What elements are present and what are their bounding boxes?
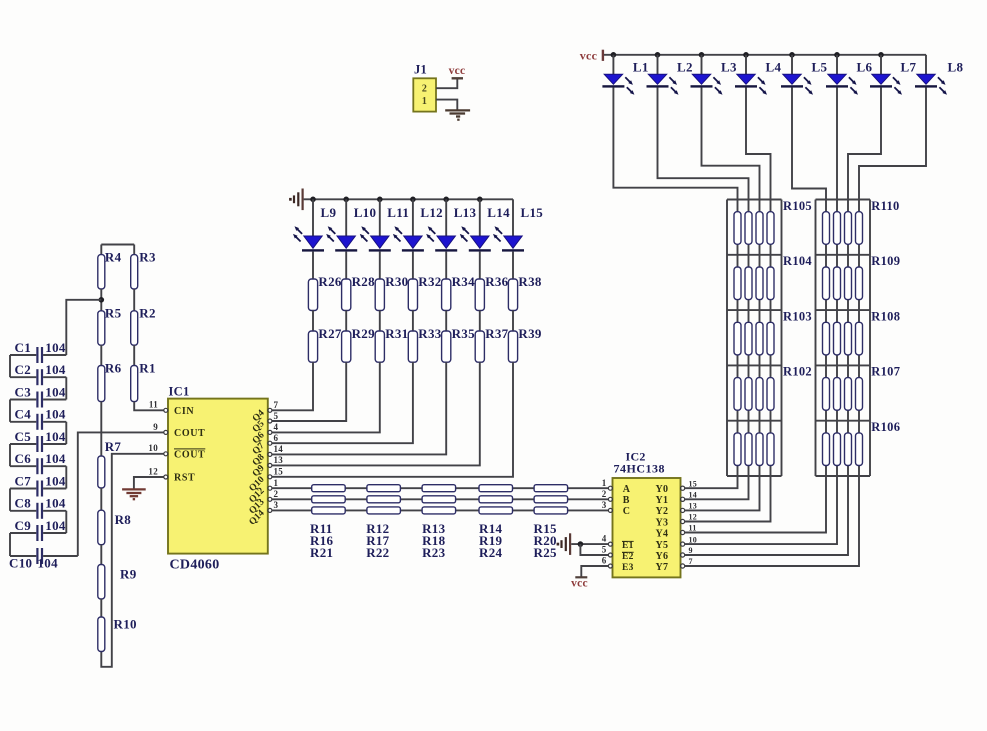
wire network right bus	[781, 200, 783, 477]
svg-text:R22: R22	[366, 545, 389, 560]
resistor element (network)	[823, 433, 830, 466]
wire cap bus right C6-C7	[65, 466, 67, 488]
resistor element (network)	[834, 267, 841, 300]
pin 6 (Q7)	[268, 441, 272, 445]
pin 9 (Y6)	[681, 553, 685, 557]
svg-text:14: 14	[689, 491, 698, 500]
pin 5 (Q5)	[268, 419, 272, 423]
wire R39 to IC1 pin	[272, 362, 513, 477]
resistor R6	[98, 366, 105, 402]
svg-text:R34: R34	[452, 274, 475, 289]
resistor R33	[408, 331, 417, 362]
wire network column	[836, 200, 838, 477]
resistor R15	[534, 485, 568, 492]
node rail junction L1	[611, 52, 617, 58]
wire anode L15	[512, 199, 514, 236]
wire network rung	[816, 364, 871, 366]
node rail junction L6	[834, 52, 840, 58]
resistor R31	[375, 331, 384, 362]
svg-text:Y1: Y1	[655, 495, 668, 506]
resistor R27	[308, 331, 317, 362]
resistor R22	[367, 507, 401, 514]
svg-text:R37: R37	[485, 326, 508, 341]
wire R4-R3 top	[101, 244, 134, 246]
resistor R28	[342, 279, 351, 311]
pin 4 (E1)	[608, 542, 612, 546]
pin 13 (Q9)	[268, 463, 272, 467]
svg-text:CIN: CIN	[174, 406, 194, 417]
svg-text:R8: R8	[115, 512, 132, 527]
resistor element (network)	[756, 212, 763, 245]
wire to E2	[580, 544, 608, 555]
svg-text:15: 15	[689, 479, 698, 488]
node R4/R5 junction	[99, 297, 105, 303]
svg-text:104: 104	[45, 473, 66, 488]
wire	[133, 289, 135, 311]
svg-text:E2: E2	[622, 552, 634, 562]
svg-text:R7: R7	[105, 439, 122, 454]
pin 3 (Q14)	[268, 508, 272, 512]
wire anode L8	[925, 55, 927, 75]
svg-text:R110: R110	[871, 199, 899, 213]
resistor R20	[534, 496, 568, 503]
pin 12 (RST)	[164, 475, 168, 479]
resistor R25	[534, 507, 568, 514]
svg-text:L1: L1	[633, 60, 649, 75]
svg-text:R33: R33	[418, 326, 441, 341]
wire cap bus right C2-C3	[65, 377, 67, 399]
svg-text:5: 5	[602, 545, 607, 555]
resistor R35	[442, 331, 451, 362]
svg-text:R102: R102	[783, 365, 812, 379]
pin 12 (Y3)	[681, 519, 685, 523]
LED L7	[870, 74, 902, 95]
resistor element (network)	[767, 212, 774, 245]
wire IC1 /COUT loop to R10	[101, 454, 163, 667]
svg-text:104: 104	[45, 429, 66, 444]
svg-text:vcc: vcc	[449, 65, 466, 77]
wire R8 to R9	[100, 545, 102, 565]
resistor R24	[479, 507, 513, 514]
resistor R30	[375, 279, 384, 311]
resistor element (network)	[756, 378, 763, 411]
resistor element (network)	[734, 267, 741, 300]
svg-text:7: 7	[689, 557, 693, 566]
svg-text:E1: E1	[622, 541, 634, 551]
svg-text:1: 1	[422, 96, 427, 107]
svg-text:4: 4	[602, 534, 607, 544]
svg-text:C8: C8	[15, 496, 32, 511]
wire anode L9	[312, 199, 314, 236]
wire L14 cathode	[479, 252, 481, 279]
wire	[100, 289, 102, 311]
wire R35 to IC1 pin	[272, 362, 446, 454]
pin 2 (Q13)	[268, 497, 272, 501]
wire network rung	[727, 420, 782, 422]
wire L7 cathode to R110 net	[848, 87, 881, 199]
node rail junction L2	[655, 52, 661, 58]
ground (L9 rail)	[294, 189, 303, 211]
wire cap bus left C7-C8	[9, 489, 11, 511]
capacitor C7	[10, 481, 66, 497]
pin 1 (Q12)	[268, 486, 272, 490]
wire R1 to IC1 CIN	[134, 402, 163, 411]
svg-text:R31: R31	[385, 326, 408, 341]
wire anode L10	[345, 199, 347, 236]
svg-text:R27: R27	[318, 326, 341, 341]
resistor element (network)	[734, 212, 741, 245]
svg-text:C1: C1	[15, 340, 32, 355]
capacitor C5	[10, 436, 66, 452]
capacitor C8	[10, 503, 66, 519]
wire L2 cathode to R105 net	[658, 87, 749, 199]
wire cap bus left C9-C10	[9, 533, 11, 556]
resistor R10	[98, 617, 105, 652]
capacitor C9	[10, 525, 66, 541]
power VCC bar	[602, 50, 604, 61]
svg-text:2: 2	[602, 489, 607, 499]
LED L9	[293, 226, 324, 251]
svg-text:R25: R25	[534, 545, 557, 560]
resistor element (network)	[834, 433, 841, 466]
wire	[312, 311, 314, 332]
power VCC (J1)	[452, 77, 463, 79]
pin 9 (COUT)	[164, 430, 168, 434]
op-amp substitute: counter IC1 CD4060	[168, 399, 268, 554]
decoder IC2 74HC138	[613, 478, 681, 577]
pin 10 (Y5)	[681, 542, 685, 546]
svg-text:COUT: COUT	[174, 449, 205, 460]
wire network column	[858, 200, 860, 477]
wire R7 to R8	[100, 488, 102, 510]
wire Y1 to R10x net	[685, 476, 749, 499]
resistor R19	[479, 496, 513, 503]
resistor element (network)	[845, 267, 852, 300]
svg-text:104: 104	[45, 518, 66, 533]
wire anode L7	[880, 55, 882, 75]
node E1/E2 junction	[578, 541, 584, 547]
svg-text:L12: L12	[420, 205, 443, 220]
svg-text:vcc: vcc	[580, 49, 598, 63]
svg-text:R105: R105	[783, 199, 812, 213]
LED L3	[691, 74, 723, 95]
resistor element (network)	[823, 212, 830, 245]
wire E3 to VCC	[581, 566, 608, 577]
resistor R9	[98, 565, 105, 600]
svg-text:R32: R32	[418, 274, 441, 289]
wire L8 cathode to R110 net	[859, 87, 926, 199]
node rail junction L12	[410, 197, 416, 203]
wire R33 to IC1 pin	[272, 362, 413, 443]
svg-text:E3: E3	[622, 563, 634, 573]
wire cap bus left C1-C2	[9, 355, 11, 377]
node rail junction L4	[743, 52, 749, 58]
wire	[133, 245, 135, 255]
resistor R4	[98, 255, 105, 289]
resistor R18	[422, 496, 456, 503]
wire network rung	[816, 309, 871, 311]
wire	[512, 311, 514, 332]
svg-text:R26: R26	[318, 274, 341, 289]
svg-text:C: C	[623, 506, 631, 517]
resistor element (network)	[745, 212, 752, 245]
wire L9 cathode	[312, 252, 314, 279]
svg-text:R10: R10	[114, 616, 137, 631]
svg-text:R24: R24	[479, 545, 502, 560]
resistor element (network)	[823, 378, 830, 411]
resistor element (network)	[734, 378, 741, 411]
svg-text:104: 104	[45, 384, 66, 399]
svg-text:R23: R23	[422, 545, 445, 560]
node rail junction L5	[789, 52, 795, 58]
wire network rung	[816, 420, 871, 422]
wire Y5 to R1xx net	[685, 476, 837, 544]
svg-text:14: 14	[274, 444, 284, 454]
LED L8	[915, 74, 947, 95]
resistor element (network)	[756, 433, 763, 466]
wire anode L14	[479, 199, 481, 236]
LED L13	[426, 226, 457, 251]
wire	[445, 311, 447, 332]
pin 4 (Q6)	[268, 430, 272, 434]
resistor element (network)	[845, 433, 852, 466]
wire anode L5	[791, 55, 793, 75]
wire anode L2	[657, 55, 659, 75]
wire R31 to IC1 pin	[272, 362, 380, 432]
svg-text:10: 10	[689, 535, 698, 544]
svg-text:R28: R28	[352, 274, 375, 289]
wire network rung	[727, 309, 782, 311]
resistor element (network)	[756, 267, 763, 300]
resistor R37	[475, 331, 484, 362]
wire L15 cathode	[512, 252, 514, 279]
svg-text:L4: L4	[766, 60, 782, 75]
svg-text:L7: L7	[901, 60, 917, 75]
wire network rung	[816, 475, 871, 477]
wire	[345, 311, 347, 332]
svg-text:L3: L3	[721, 60, 737, 75]
wire L6 cathode to R110 net	[836, 87, 838, 199]
power VCC (IC2 E3)	[575, 576, 587, 578]
svg-text:2: 2	[274, 489, 279, 499]
resistor R8	[98, 510, 105, 545]
resistor R29	[342, 331, 351, 362]
svg-text:1: 1	[274, 478, 279, 488]
resistor element (network)	[845, 378, 852, 411]
svg-text:L6: L6	[857, 60, 873, 75]
wire Y3 to R10x net	[685, 476, 771, 522]
svg-text:74HC138: 74HC138	[614, 461, 666, 475]
pin 7 (Q4)	[268, 408, 272, 412]
svg-text:Y4: Y4	[655, 528, 668, 539]
svg-text:15: 15	[274, 467, 284, 477]
node rail junction L13	[443, 197, 449, 203]
pin 15 (Q10)	[268, 475, 272, 479]
resistor R21	[312, 507, 346, 514]
pin 10 (COUT)	[164, 452, 168, 456]
wire cap bus right C8-C9	[65, 511, 67, 533]
resistor R3	[131, 255, 138, 289]
resistor element (network)	[856, 322, 863, 355]
pin 3 (C)	[608, 508, 612, 512]
wire anode L13	[445, 199, 447, 236]
wire cap bus left C5-C6	[9, 444, 11, 466]
svg-text:11: 11	[149, 400, 158, 410]
wire L9-L15 rail	[313, 198, 513, 200]
resistor R16	[312, 496, 346, 503]
svg-text:R6: R6	[105, 360, 122, 375]
svg-text:R104: R104	[783, 254, 812, 268]
pin 1 (A)	[608, 486, 612, 490]
wire anode L12	[412, 199, 414, 236]
capacitor C3	[10, 392, 66, 408]
wire network column	[759, 200, 761, 477]
wire network right bus	[869, 200, 871, 477]
node rail junction L7	[878, 52, 884, 58]
svg-text:R103: R103	[783, 309, 812, 323]
svg-text:Y3: Y3	[655, 517, 668, 528]
svg-text:13: 13	[689, 502, 698, 511]
wire cap bus right C4-C5	[65, 422, 67, 444]
wire Y0 to R10x net	[685, 476, 738, 488]
svg-text:A: A	[623, 484, 631, 495]
svg-text:6: 6	[602, 556, 607, 566]
resistor element (network)	[834, 212, 841, 245]
svg-text:R39: R39	[518, 326, 541, 341]
svg-text:C10: C10	[9, 555, 32, 570]
svg-text:104: 104	[45, 362, 66, 377]
wire R37 to IC1 pin	[272, 362, 480, 465]
resistor R38	[508, 279, 517, 311]
resistor element (network)	[845, 322, 852, 355]
svg-text:R108: R108	[871, 309, 900, 323]
resistor element (network)	[767, 322, 774, 355]
wire address rail	[272, 498, 608, 500]
svg-text:L5: L5	[812, 60, 828, 75]
svg-text:C2: C2	[15, 362, 32, 377]
svg-text:R29: R29	[352, 326, 375, 341]
svg-text:6: 6	[274, 433, 279, 443]
svg-text:12: 12	[689, 513, 698, 522]
pin 6 (E3)	[608, 564, 612, 568]
wire	[412, 311, 414, 332]
resistor R1	[131, 366, 138, 402]
wire cap bus left C3-C4	[9, 400, 11, 422]
svg-text:Y6: Y6	[655, 551, 668, 562]
wire address rail	[272, 509, 608, 511]
pin 5 (E2)	[608, 553, 612, 557]
svg-text:1: 1	[602, 478, 607, 488]
resistor element (network)	[823, 267, 830, 300]
svg-text:9: 9	[153, 422, 158, 432]
resistor R11	[312, 485, 346, 492]
svg-text:10: 10	[148, 443, 158, 453]
capacitor C2	[10, 369, 66, 385]
wire anode L11	[379, 199, 381, 236]
ground (J1)	[445, 110, 470, 116]
resistor R32	[408, 279, 417, 311]
wire network rung	[816, 254, 871, 256]
svg-text:13: 13	[274, 455, 284, 465]
svg-text:L10: L10	[354, 205, 377, 220]
svg-text:R35: R35	[452, 326, 475, 341]
wire network column	[770, 200, 772, 477]
wire junction to C1	[66, 300, 101, 355]
resistor element (network)	[734, 433, 741, 466]
resistor R12	[367, 485, 401, 492]
svg-text:Y5: Y5	[655, 540, 668, 551]
ground (RST)	[122, 489, 146, 499]
svg-text:COUT: COUT	[174, 428, 205, 439]
svg-text:3: 3	[602, 500, 607, 510]
wire IC1 COUT to C10	[78, 432, 164, 556]
svg-text:R2: R2	[139, 306, 156, 321]
wire network rung	[727, 254, 782, 256]
svg-text:vcc: vcc	[571, 578, 588, 590]
resistor element (network)	[767, 378, 774, 411]
wire L5 cathode to R110 net	[792, 87, 826, 199]
pin 11 (Y4)	[681, 530, 685, 534]
svg-text:B: B	[623, 495, 630, 506]
svg-text:104: 104	[45, 340, 66, 355]
resistor R23	[422, 507, 456, 514]
svg-text:104: 104	[45, 407, 66, 422]
svg-text:R3: R3	[139, 249, 156, 264]
pin 13 (Y2)	[681, 508, 685, 512]
LED L10	[326, 226, 357, 251]
node rail junction L3	[699, 52, 705, 58]
svg-text:5: 5	[274, 411, 279, 421]
wire R6 to R7	[100, 402, 102, 456]
pin 7 (Y7)	[681, 564, 685, 568]
LED L1	[602, 74, 634, 95]
resistor R14	[479, 485, 513, 492]
wire	[100, 345, 102, 365]
svg-text:104: 104	[45, 451, 66, 466]
resistor R36	[475, 279, 484, 311]
svg-text:RST: RST	[174, 473, 195, 484]
wire Y7 to R1xx net	[685, 476, 859, 566]
svg-text:R109: R109	[871, 254, 900, 268]
wire network left bus	[815, 200, 817, 477]
LED L5	[781, 74, 813, 95]
svg-text:L8: L8	[948, 60, 964, 75]
svg-text:R106: R106	[871, 420, 900, 434]
svg-text:C6: C6	[15, 451, 32, 466]
wire VCC rail	[604, 54, 926, 56]
svg-text:104: 104	[45, 496, 66, 511]
wire L12 cathode	[412, 252, 414, 279]
node rail junction L10	[343, 197, 349, 203]
LED L2	[647, 74, 679, 95]
wire network column	[748, 200, 750, 477]
svg-text:CD4060: CD4060	[170, 557, 220, 572]
wire network rung	[816, 199, 871, 201]
svg-text:3: 3	[274, 500, 279, 510]
resistor element (network)	[745, 322, 752, 355]
wire	[379, 311, 381, 332]
wire anode L6	[836, 55, 838, 75]
pin 14 (Y1)	[681, 497, 685, 501]
LED L15	[493, 226, 524, 251]
capacitor C1	[10, 347, 66, 363]
resistor R13	[422, 485, 456, 492]
wire L1 cathode to R105 net	[613, 87, 737, 199]
svg-text:L15: L15	[521, 205, 544, 220]
LED L11	[360, 226, 391, 251]
pin 2 (B)	[608, 497, 612, 501]
resistor element (network)	[834, 322, 841, 355]
